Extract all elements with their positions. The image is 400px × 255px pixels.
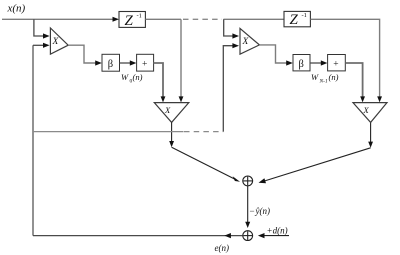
wire S1 to S2 with arrow — [245, 186, 250, 228]
wire tap to T2 upper input — [224, 19, 239, 38]
svg-text:x(n): x(n) — [7, 3, 26, 15]
wire TD2 output arrow down — [368, 122, 373, 147]
svg-text:(n): (n) — [133, 72, 143, 82]
wire top rail from x(n) to Z1 — [2, 17, 119, 22]
wire tap vertical into down-triangle V1 with arrow — [179, 19, 184, 102]
svg-text:W: W — [121, 72, 129, 82]
label W0(n) — [121, 72, 143, 85]
label +d(n) — [267, 226, 288, 236]
svg-text:Z: Z — [125, 13, 134, 29]
svg-text:(n): (n) — [329, 72, 339, 82]
svg-text:N-1: N-1 — [319, 79, 329, 85]
wire from Z2 to right column — [310, 19, 382, 102]
wire TD1 diagonal into summer S1 — [172, 147, 240, 182]
wire feedback riser to T2 lower input — [223, 43, 239, 132]
wire B1 to adder box A1 — [120, 60, 137, 65]
gain block B2 (beta) — [293, 55, 310, 71]
summer S2 (circle plus) — [243, 231, 253, 241]
wire A1 output down to weight multiplier TD1 — [154, 63, 166, 102]
wire from Z1 to tap vertical — [145, 18, 181, 20]
wire feedback left column — [32, 45, 34, 235]
label e(n) — [215, 243, 230, 253]
svg-text:ŷ(n): ŷ(n) — [255, 206, 271, 216]
multiplier T1 (error x input) — [50, 28, 68, 54]
multiplier T2 (error x delayed input) — [240, 28, 259, 54]
accumulator box A1 (+) — [137, 54, 154, 71]
svg-text:β: β — [299, 59, 304, 70]
wire TD1 output arrow down — [169, 122, 174, 147]
svg-text:β: β — [108, 59, 113, 70]
svg-text:+d(n): +d(n) — [267, 226, 288, 236]
gain block B1 (beta) — [102, 54, 120, 71]
accumulator box A2 (+) — [328, 55, 346, 71]
wire T1 output to B1 — [68, 45, 102, 65]
summer S1 (circle plus) — [243, 176, 253, 186]
svg-text:e(n): e(n) — [215, 243, 230, 253]
weight multiplier TD2 — [353, 103, 387, 123]
wire dashed top rail continuation — [183, 18, 222, 20]
wire TD2 diagonal into summer S1 — [259, 148, 371, 183]
svg-text:+: + — [333, 59, 338, 69]
svg-text:Z: Z — [290, 12, 299, 28]
wire d(n) input arrow into S2 — [258, 233, 289, 238]
svg-text:X: X — [52, 37, 60, 47]
svg-text:W: W — [311, 72, 319, 82]
wire top rail stage2 to Z2 — [224, 18, 285, 20]
delay block Z2 (Z^-1) — [284, 11, 310, 28]
svg-text:−: − — [250, 206, 255, 216]
svg-text:-1: -1 — [137, 13, 142, 20]
wire B2 to adder box A2 — [310, 60, 327, 65]
wire input tap to multiplier T1 upper input — [34, 19, 50, 38]
svg-text:+: + — [142, 59, 147, 69]
delay block Z1 (Z^-1) — [119, 12, 145, 29]
label WN-1(n) — [311, 72, 339, 85]
wire e(n) output going left with arrow — [33, 233, 243, 238]
svg-text:X: X — [363, 105, 370, 115]
wire T2 output to B2 — [259, 45, 292, 66]
wire feedback to multiplier T1 lower input — [33, 43, 50, 48]
label -y^(n) — [250, 206, 271, 216]
node x(n) input label — [7, 3, 26, 15]
weight multiplier TD1 — [154, 103, 189, 123]
svg-text:X: X — [242, 37, 250, 47]
wire feedback mid rail solid — [33, 131, 184, 133]
svg-text:-1: -1 — [302, 12, 307, 19]
svg-text:X: X — [164, 105, 171, 115]
wire A2 output down to weight multiplier TD2 — [345, 63, 365, 102]
wire feedback mid rail dashed — [184, 131, 223, 133]
